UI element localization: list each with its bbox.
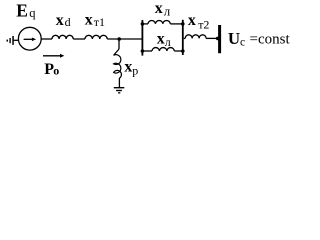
node dot bottom-left [141, 49, 145, 53]
label x_d [56, 12, 71, 29]
label x_L (top) [155, 0, 171, 18]
reactance x_L2 (bottom line inductor) [152, 48, 174, 51]
left bus bar [142, 20, 144, 56]
svg-text:л: л [164, 3, 171, 18]
svg-text:т2: т2 [198, 17, 209, 31]
svg-text:л: л [165, 35, 171, 49]
source E_q (EMF source, circle) [18, 27, 41, 50]
svg-text:x: x [124, 59, 132, 76]
svg-text:о: о [53, 63, 59, 77]
reactance x_d (inductor, 3 arcs) [52, 35, 73, 39]
wire bottom branch right [174, 50, 182, 52]
node A (junction dot for shunt reactor) [117, 37, 121, 41]
svg-text:q: q [29, 6, 36, 20]
node dot top-right [181, 22, 185, 26]
wire source to x_d [41, 38, 52, 40]
ground GND2 [114, 87, 125, 94]
svg-text:x: x [155, 0, 163, 17]
wire reactor to ground GND2 [118, 78, 120, 88]
svg-text:E: E [16, 1, 28, 21]
svg-text:x: x [85, 12, 93, 29]
node dot bottom-right [181, 49, 185, 53]
ground GND1 (sideways, at source terminal) [7, 36, 14, 45]
reactance x_T2 (inductor, 3 arcs) [185, 35, 206, 39]
label U_c = const [228, 29, 291, 49]
wire right bus to x_T2 [184, 37, 186, 39]
svg-text:=const: =const [250, 31, 291, 47]
svg-text:р: р [132, 64, 138, 78]
wire top branch left [143, 23, 148, 25]
node dot top-left [141, 22, 145, 26]
right bus bar [182, 20, 184, 55]
label x_T1 [85, 12, 105, 29]
wire x_T2 to infinite bus [206, 37, 218, 39]
label E_q [16, 1, 36, 21]
infinite bus bar U_c [218, 25, 221, 53]
label x_L (bottom) [157, 31, 171, 49]
wire x_d to x_T1 [73, 38, 85, 40]
reactance x_L1 (top line inductor) [148, 20, 170, 23]
svg-text:x: x [188, 12, 196, 29]
svg-text:U: U [228, 29, 240, 48]
wire x_T1 to node A and to left bus [107, 38, 141, 40]
node dot at infinite bus [216, 37, 220, 41]
reactance x_T1 (inductor, 3 arcs) [85, 35, 107, 39]
wire ground GND1 to source [14, 39, 19, 41]
wire top branch right [170, 23, 182, 25]
svg-text:x: x [157, 31, 165, 48]
label P_0 [44, 61, 59, 78]
power flow arrow P_0 [43, 54, 64, 58]
shunt reactor x_p (vertical loop inductor) [114, 49, 122, 78]
svg-text:c: c [240, 37, 245, 49]
label x_T2 [188, 12, 210, 31]
arrow inside source [24, 38, 36, 42]
wire node A down to reactor [118, 39, 120, 49]
svg-text:x: x [56, 12, 64, 29]
label x_p [124, 59, 138, 78]
svg-text:d: d [65, 15, 71, 29]
svg-text:т1: т1 [94, 15, 105, 29]
wire bottom branch left [143, 50, 152, 52]
